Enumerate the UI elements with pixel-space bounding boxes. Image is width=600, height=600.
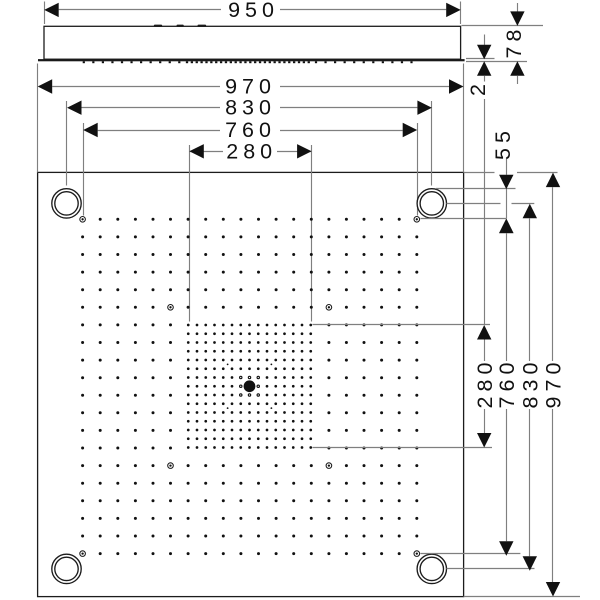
nozzle ticks under plate: [83, 61, 413, 63]
svg-text:2: 2: [466, 79, 490, 96]
svg-text:760: 760: [495, 358, 519, 409]
diagonal micro nozzles: [227, 363, 273, 409]
corner nozzle top-left: [52, 189, 81, 218]
face plate (2 mm, side view): [38, 59, 465, 61]
ring nozzles around centre: [239, 376, 260, 397]
dimension 830 (right): [447, 204, 543, 571]
corner nozzle top-right: [417, 189, 446, 218]
centre nozzle: [244, 380, 256, 392]
connector bumps on body top: [154, 25, 206, 27]
dimension 280 (right): [313, 325, 497, 448]
svg-text:830: 830: [518, 358, 542, 409]
dimension 760 (right): [420, 219, 520, 556]
nozzle grid 40 mm: [81, 218, 418, 555]
corner nozzle bottom-right: [417, 554, 446, 583]
svg-text:78: 78: [502, 25, 526, 59]
svg-text:280: 280: [226, 139, 277, 163]
dimension 55: [420, 126, 515, 233]
dimension 970 (right): [464, 173, 580, 597]
svg-text:950: 950: [228, 0, 279, 22]
dimension 280 (top): [189, 139, 311, 321]
plate outline (plan view): [38, 172, 464, 596]
shower body (side view): [44, 26, 461, 59]
corner nozzle bottom-left: [52, 554, 81, 583]
svg-text:970: 970: [542, 358, 566, 409]
screw holes: [80, 217, 420, 557]
dimension 970 (top): [38, 64, 464, 173]
svg-text:280: 280: [473, 358, 497, 409]
svg-text:55: 55: [491, 126, 515, 160]
dimension 78: [462, 3, 544, 84]
dimension 2: [466, 35, 495, 326]
svg-text:830: 830: [225, 96, 276, 120]
dense centre nozzle field 280 mm: [187, 324, 312, 449]
dimension 760 (top): [83, 118, 417, 216]
dimension 830 (top): [67, 96, 432, 186]
dimension 950: [44, 0, 461, 24]
